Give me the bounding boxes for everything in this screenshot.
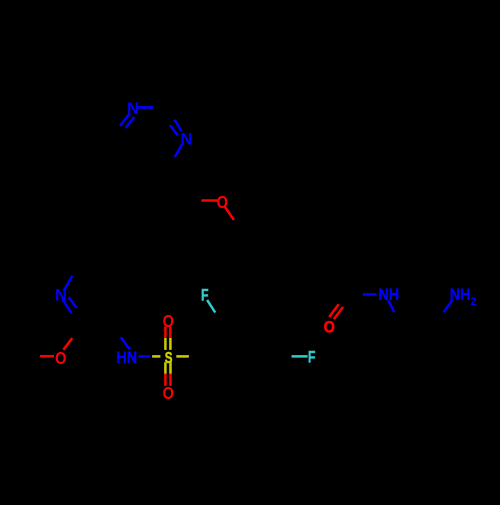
wire: bond N1-C2 half (blue) — [138, 106, 154, 109]
wire: bond C=O main line red half — [329, 304, 338, 317]
wire: bond C3-NH half up-left (blue) — [121, 337, 130, 349]
wire: bond CH3-O half (red) — [40, 355, 54, 358]
wire: bond S=O bottom, right line yellow half — [169, 362, 172, 374]
wire: bond C2=N3 main line half (blue) — [175, 120, 182, 132]
svg-text:O: O — [324, 319, 335, 337]
wire: bond N-C6 half up-right (blue) — [64, 276, 73, 291]
wire: bond S=O bottom, left line red half — [164, 374, 167, 386]
wire: bond N3-C4 half (blue) — [175, 144, 183, 157]
wire: bond S=O top, left line yellow half — [164, 338, 167, 350]
wire: bond CH2-O left half (red) — [201, 199, 217, 202]
wire: bond N=C2 inner line half (blue) — [69, 297, 77, 308]
wire: bond O-CH2 down-right half (red) — [225, 206, 234, 220]
wire: bond C-N blue half — [363, 293, 377, 296]
wire: bond N1=C6 main line half (blue) — [120, 113, 130, 126]
wire: bond F1-C2(aryl) half (cyan) — [207, 300, 215, 313]
wire: bond S-C1 yellow half — [176, 355, 189, 358]
wire: bond S=O top, right line yellow half — [169, 338, 172, 350]
wire: bond CH2-NH2 half up-right (blue) — [444, 300, 453, 312]
svg-text:HN: HN — [116, 349, 137, 367]
wire: bond O-C2 half up-right (red) — [63, 338, 72, 350]
svg-text:O: O — [55, 349, 67, 369]
wire: bond N-S blue half — [138, 355, 150, 358]
wire: bond C2=N3 inner line half (blue) — [170, 125, 178, 135]
wire: bond S=O top, right line red half — [169, 327, 172, 339]
svg-text:F: F — [308, 349, 316, 367]
wire: bond S=O bottom, left line yellow half — [164, 362, 167, 374]
wire: bond N-CH2 half down-right (blue) — [388, 300, 394, 312]
wire: bond N1=C6 inner line half (blue) — [126, 117, 135, 128]
wire: bond N=C2 main line half (blue) — [63, 299, 72, 313]
wire: bond F2-C4(aryl) half (cyan) — [292, 355, 308, 358]
wire: bond S=O top, left line red half — [164, 327, 167, 339]
svg-text:2: 2 — [470, 296, 476, 308]
wire: bond C=O second line red half — [334, 307, 343, 319]
wire: bond N-S yellow half — [152, 355, 160, 358]
svg-text:O: O — [163, 383, 175, 403]
wire: bond S=O bottom, right line red half — [169, 374, 172, 386]
